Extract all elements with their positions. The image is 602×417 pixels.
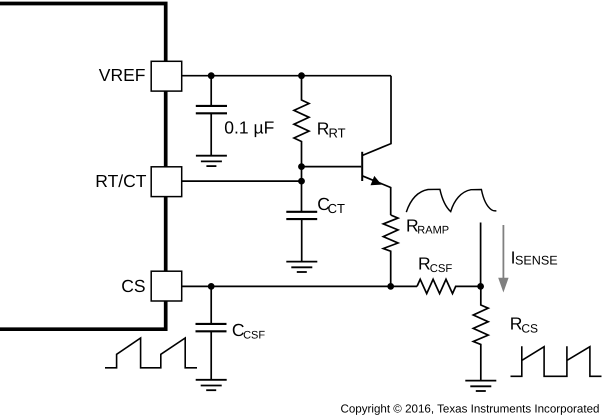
label RCSF: [418, 253, 452, 275]
label RRT: [317, 119, 346, 141]
svg-text:Copyright © 2016, Texas Instru: Copyright © 2016, Texas Instruments Inco…: [340, 403, 599, 416]
wire RT/CT to node: [182, 180, 302, 182]
svg-text:CSF: CSF: [243, 330, 265, 342]
capacitor CCT: [286, 212, 317, 262]
wire VREF rail: [182, 75, 392, 77]
capacitor CCSF: [196, 286, 227, 379]
svg-text:SENSE: SENSE: [515, 254, 558, 268]
junction node RCSF-RCS: [477, 283, 484, 290]
capacitor 0.1uF: [196, 106, 227, 156]
svg-text:RT/CT: RT/CT: [95, 171, 147, 191]
junction node VREF-RRT: [298, 72, 305, 79]
junction node CS-CCSF: [208, 283, 215, 290]
value label 0.1 uF: [224, 118, 274, 138]
svg-text:CS: CS: [121, 276, 145, 296]
pin label VREF: [99, 65, 146, 85]
ground (0.1uF): [196, 156, 227, 166]
junction node base: [298, 163, 305, 170]
ramp waveform sketch: [406, 189, 496, 212]
CT sawtooth waveform sketch: [105, 338, 197, 368]
wire emitter down: [390, 187, 392, 215]
resistor RRT: [294, 76, 309, 167]
label RRAMP: [406, 215, 449, 236]
ground (CCSF): [196, 380, 227, 390]
svg-text:RAMP: RAMP: [417, 225, 449, 237]
ground (CCT): [286, 262, 317, 272]
wire CS rail: [182, 285, 418, 287]
pin label RT/CT: [95, 171, 147, 191]
resistor RCSF: [417, 279, 481, 293]
svg-text:RT: RT: [329, 125, 346, 140]
pin VREF: [151, 61, 182, 91]
sense sawtooth waveform sketch: [511, 346, 602, 376]
IC block outline: [0, 4, 166, 330]
pin CS: [151, 271, 182, 301]
label ISENSE: [511, 247, 558, 267]
wire base: [302, 166, 362, 168]
resistor RCS: [473, 286, 488, 380]
svg-text:CS: CS: [521, 321, 538, 335]
svg-text:CSF: CSF: [430, 263, 453, 275]
wire ramp feed: [480, 223, 482, 287]
pin label CS: [121, 276, 145, 296]
ISENSE arrow: [498, 225, 508, 293]
transistor Q1 emitter with arrow: [362, 176, 391, 188]
label CCSF: [232, 320, 265, 341]
label RCS: [510, 314, 538, 336]
svg-text:CT: CT: [328, 201, 345, 216]
pin RT/CT: [151, 167, 182, 197]
wire capacitor C1 stub: [210, 76, 212, 106]
junction node VREF-C1: [208, 72, 215, 79]
junction node RT/CT: [298, 178, 305, 185]
ground (RCS): [465, 381, 496, 391]
wire node to CCT: [301, 167, 303, 212]
copyright text: [340, 403, 599, 416]
label CCT: [317, 194, 345, 216]
svg-text:0.1 µF: 0.1 µF: [224, 118, 274, 138]
transistor Q1 base bar: [361, 152, 363, 181]
resistor RRAMP: [383, 215, 398, 286]
svg-text:VREF: VREF: [99, 65, 146, 85]
junction node RRAMP-CS: [387, 283, 394, 290]
transistor Q1 collector: [362, 76, 391, 156]
